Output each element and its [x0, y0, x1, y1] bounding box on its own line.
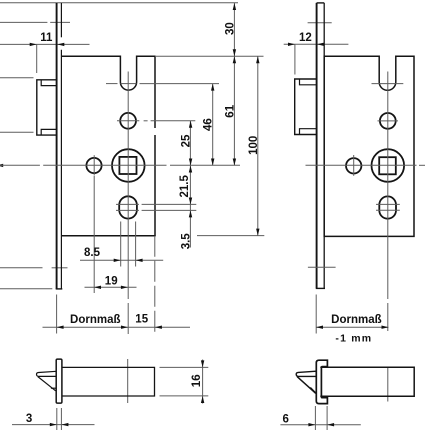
dimension 30 arrows — [233, 3, 236, 56]
svg-text:3: 3 — [26, 413, 32, 425]
right notch bottom tick — [372, 83, 404, 85]
dimension 46 arrows — [211, 84, 214, 166]
right side view channel plate — [316, 360, 327, 403]
dimension 3 arrows — [50, 423, 69, 426]
case bottom extension y235 — [197, 235, 264, 237]
right key circle centerline — [353, 155, 355, 176]
left key circle — [86, 158, 101, 173]
dimension 12 line — [284, 43, 349, 45]
svg-text:Dornmaß: Dornmaß — [331, 314, 381, 326]
svg-text:15: 15 — [135, 314, 148, 326]
left stub line y289 — [0, 288, 52, 290]
left top screw circle — [120, 113, 136, 129]
left follower box — [37, 80, 57, 135]
left stub line y268 — [0, 267, 68, 269]
left side view latch tick — [51, 387, 56, 389]
dimension 11 arrows — [30, 43, 65, 46]
dimension 19 line — [85, 286, 137, 288]
left stub line y78 — [0, 77, 34, 79]
left stub line y22 — [0, 21, 70, 23]
right top circle centerline — [378, 120, 399, 122]
dimension 100 line — [257, 56, 259, 235]
left notch bottom extension y84 — [106, 83, 118, 85]
left vertical centerline — [127, 72, 130, 404]
right side view latch bevel — [297, 377, 316, 394]
dimension 25 arrows — [189, 121, 192, 166]
dimension 6 arrows — [308, 423, 334, 426]
svg-text:21.5: 21.5 — [179, 175, 191, 198]
svg-text:8.5: 8.5 — [84, 247, 101, 259]
dimension 8.5 arrows — [114, 259, 143, 262]
right side view latch tick — [310, 388, 316, 394]
left lock case — [61, 56, 155, 90]
right lock case — [324, 56, 414, 236]
svg-text:11: 11 — [40, 32, 53, 44]
dimension 16 extensions — [160, 367, 209, 396]
svg-text:19: 19 — [105, 275, 118, 287]
svg-text:25: 25 — [181, 134, 193, 147]
dimension 25 line — [189, 121, 191, 166]
svg-text:-1 mm: -1 mm — [335, 332, 372, 344]
svg-text:6: 6 — [282, 414, 288, 426]
svg-text:100: 100 — [248, 136, 260, 155]
right follower box — [295, 79, 317, 135]
left side view plate — [56, 359, 62, 403]
svg-text:3.5: 3.5 — [181, 233, 193, 250]
svg-text:30: 30 — [224, 22, 236, 35]
right side view body — [320, 367, 414, 396]
right faceplate tick y267 — [308, 266, 336, 268]
dimension 3.5 arrow — [189, 210, 192, 217]
dimension 3 extensions — [57, 408, 62, 430]
right stub line y22 — [308, 22, 332, 24]
Dornmass dimension line right — [316, 326, 389, 328]
right horizontal centerline — [306, 164, 417, 166]
dimension 16 arrows — [201, 360, 204, 403]
right faceplate — [316, 3, 325, 289]
dimension 46 line — [212, 84, 214, 166]
right spindle square — [379, 157, 396, 174]
Dornmass arrows right — [316, 326, 389, 329]
left oval slot — [119, 196, 137, 218]
left top circle centerline — [117, 120, 195, 122]
dimension 12 arrows — [288, 43, 324, 46]
dimension 11 extension — [36, 44, 38, 73]
right key circle — [346, 158, 361, 173]
left stub line y132 — [0, 131, 34, 133]
svg-text:16: 16 — [191, 374, 203, 387]
right faceplate bottom extension — [315, 295, 317, 334]
left side view latch bevel — [38, 377, 56, 391]
left side view body — [62, 367, 155, 396]
dimension 6 extensions — [315, 406, 327, 430]
case edge extension x155 — [154, 236, 156, 334]
right spindle circle — [372, 149, 405, 182]
dimension 6 line — [280, 424, 360, 426]
left oval line A — [116, 203, 196, 205]
Dornmass arrows left — [57, 326, 162, 329]
right top screw circle — [380, 113, 396, 129]
right oval line B — [376, 209, 400, 211]
svg-text:61: 61 — [224, 104, 236, 117]
left key circle centerline — [93, 155, 95, 175]
dimension 3 line — [12, 424, 95, 426]
right vertical centerline — [387, 72, 389, 402]
right oval line A — [376, 203, 400, 205]
dimension 61 arrows — [233, 56, 236, 165]
svg-text:Dornmaß: Dornmaß — [70, 314, 120, 326]
faceplate bottom extension — [56, 295, 58, 334]
dimension 16 line — [202, 360, 204, 404]
svg-text:12: 12 — [299, 32, 312, 44]
left side view latch head — [36, 371, 56, 376]
Dornmass dimension line left — [43, 326, 191, 328]
left oval edge extensions — [121, 222, 136, 267]
left spindle circle — [112, 149, 145, 182]
dimension 21.5 arrows — [189, 166, 192, 205]
dimension 8.5 line — [80, 259, 163, 261]
case top extension y56 — [155, 55, 264, 57]
dimension 11 line — [0, 43, 90, 45]
cut-off arrow at left edge — [0, 164, 3, 167]
top extension line — [0, 2, 238, 4]
dimension 30/61 line — [233, 3, 235, 166]
right side view latch head — [296, 371, 316, 376]
dimension 12 extension — [294, 44, 296, 74]
left oval line B — [116, 209, 196, 211]
left faceplate — [56, 3, 63, 289]
dimension 19 arrows — [94, 286, 128, 289]
left spindle square — [119, 157, 136, 174]
left horizontal centerline spindle — [0, 164, 40, 166]
right oval slot — [379, 196, 396, 218]
dimension 100 arrows — [256, 56, 259, 235]
left key circle extension down — [93, 176, 95, 293]
svg-text:46: 46 — [203, 118, 215, 131]
dimension 21.5 and 3.5 line — [189, 166, 191, 248]
